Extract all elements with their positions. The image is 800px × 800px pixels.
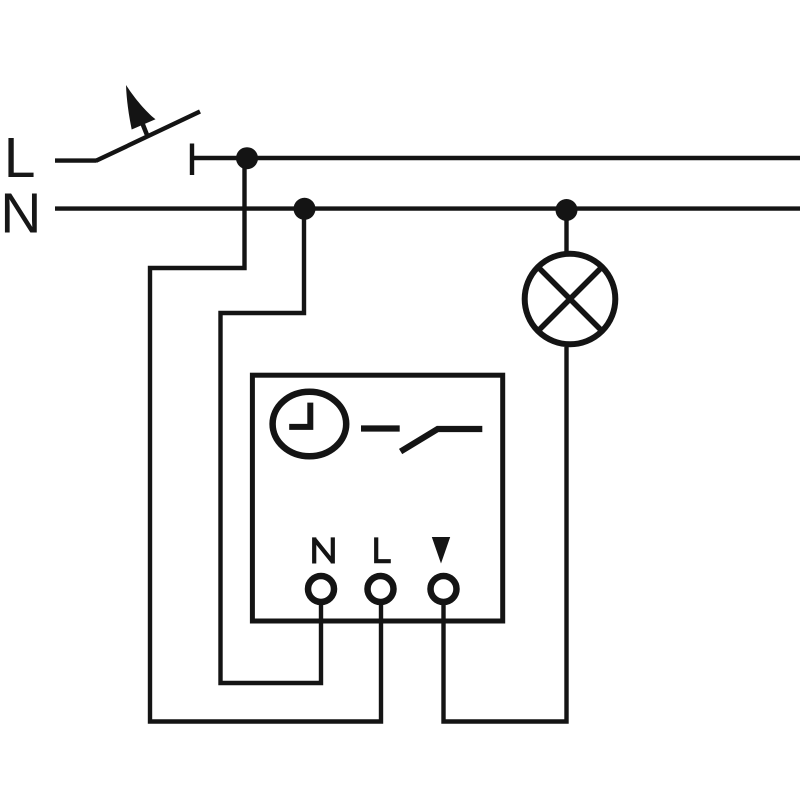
- terminal label L: [376, 537, 391, 561]
- svg-text:L: L: [4, 126, 36, 190]
- wire N bus: [55, 206, 800, 210]
- svg-text:N: N: [0, 182, 41, 246]
- node junction dot on N bus: [294, 198, 316, 220]
- clock symbol hands: [289, 403, 310, 427]
- clock symbol circle: [273, 392, 347, 456]
- wire L feed to terminal L: [150, 158, 381, 722]
- terminal N circle: [308, 576, 334, 602]
- timer contact blade and right segment: [401, 429, 483, 452]
- switch S1 fixed contact tick: [190, 144, 194, 176]
- wire lamp top to N bus: [564, 210, 568, 253]
- timer box U1 outline: [252, 375, 502, 621]
- switch S1 actuator arrow: [143, 124, 148, 136]
- lamp E1 cross: [538, 267, 602, 331]
- terminal label output arrow: [432, 537, 450, 564]
- terminal label N: [314, 537, 333, 563]
- wire N feed to terminal N: [221, 209, 322, 683]
- wire output terminal to lamp bottom: [444, 347, 567, 722]
- node junction dot on L bus: [236, 147, 258, 169]
- wire L feed stub: [55, 158, 97, 162]
- lamp E1 circle: [525, 254, 616, 345]
- terminal L circle: [368, 576, 394, 602]
- timer contact left segment: [361, 425, 400, 431]
- terminal output circle: [431, 576, 457, 602]
- wire L bus: [192, 156, 800, 160]
- node junction dot lamp to N bus: [556, 199, 578, 221]
- switch S1 lever: [96, 112, 200, 161]
